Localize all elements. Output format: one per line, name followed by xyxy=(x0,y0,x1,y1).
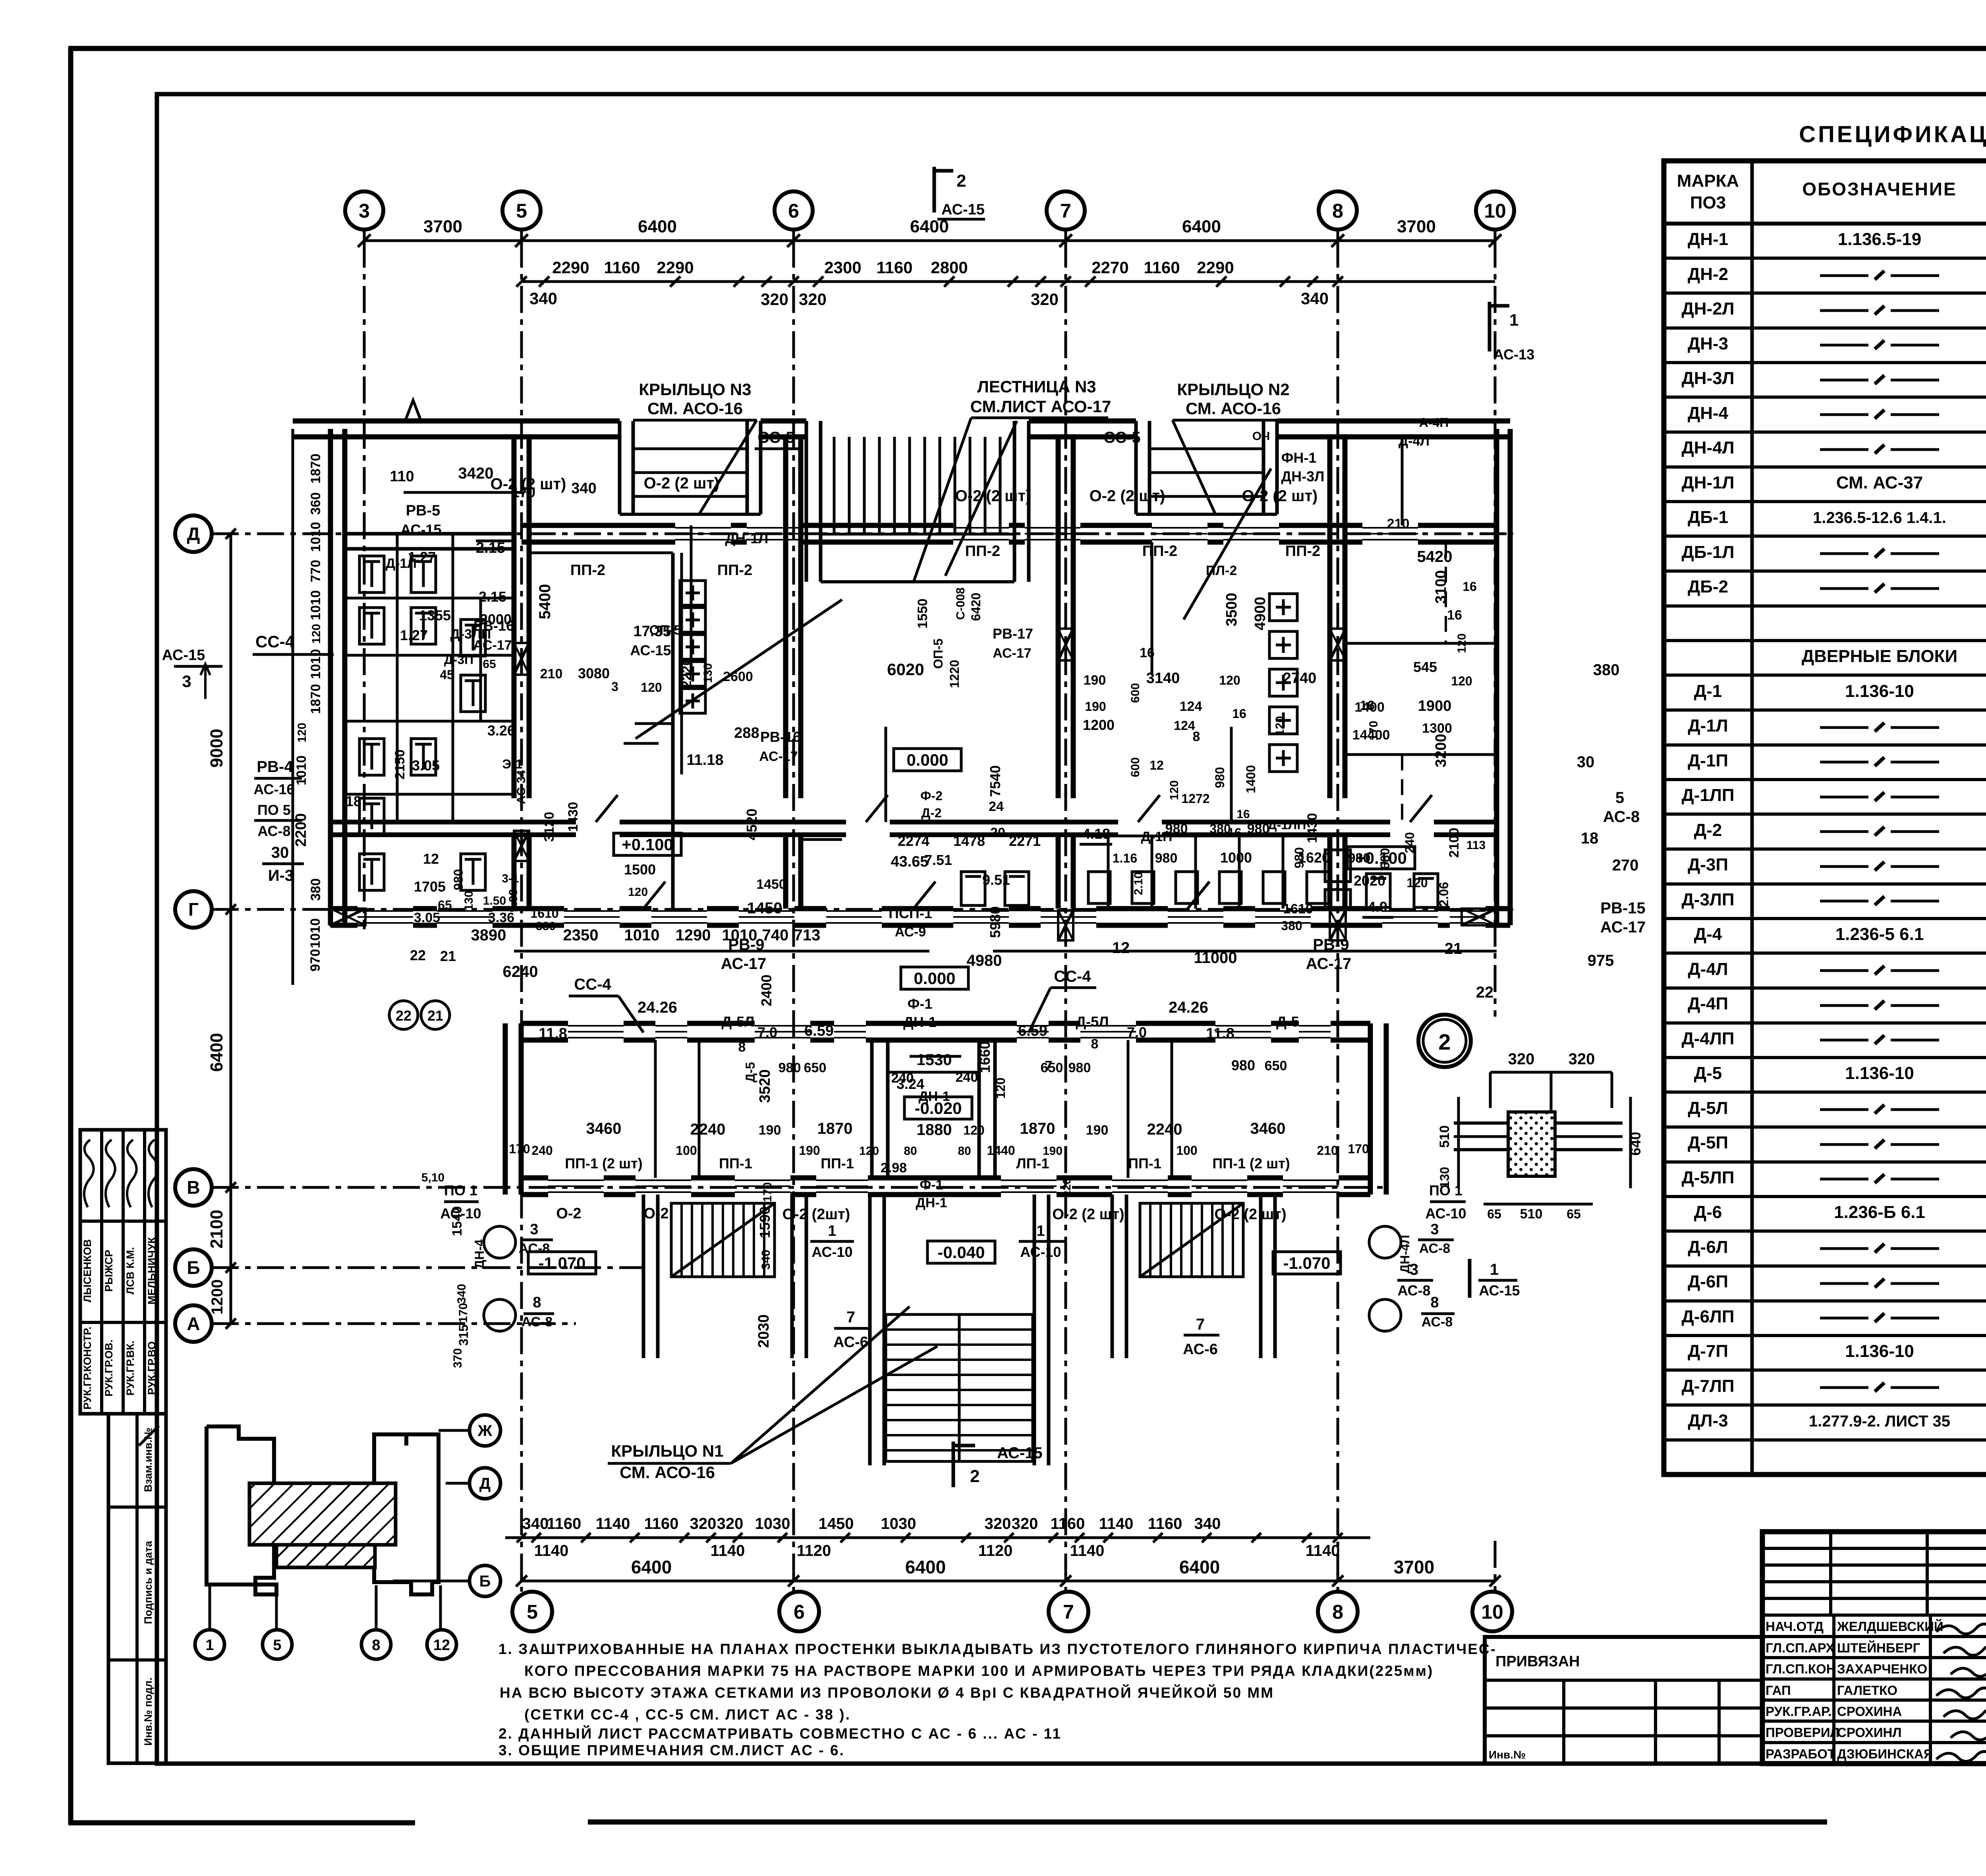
svg-text:4980: 4980 xyxy=(967,952,1002,969)
svg-text:3140: 3140 xyxy=(1146,670,1180,687)
svg-text:1: 1 xyxy=(1036,1223,1045,1239)
svg-text:1010: 1010 xyxy=(308,590,323,620)
svg-text:120: 120 xyxy=(296,723,309,743)
svg-text:АС-17: АС-17 xyxy=(473,638,512,653)
svg-text:1160: 1160 xyxy=(644,1515,679,1532)
svg-text:1.136-10: 1.136-10 xyxy=(1845,1063,1914,1083)
porch 3 xyxy=(618,421,622,514)
svg-text:0.000: 0.000 xyxy=(914,969,955,988)
svg-text:О-2 (2 шт): О-2 (2 шт) xyxy=(955,487,1031,505)
detail 2 xyxy=(1418,1015,1471,1067)
svg-text:320: 320 xyxy=(1508,1050,1535,1068)
svg-text:Д-5: Д-5 xyxy=(1276,1013,1299,1030)
svg-text:16: 16 xyxy=(1462,579,1477,594)
svg-text:МАРКА: МАРКА xyxy=(1677,171,1739,191)
svg-text:3: 3 xyxy=(182,672,191,691)
svg-text:И-3: И-3 xyxy=(268,867,294,884)
svg-text:4520: 4520 xyxy=(744,809,760,840)
svg-text:АС-8: АС-8 xyxy=(1397,1282,1430,1299)
svg-text:190: 190 xyxy=(1084,673,1106,688)
svg-text:1160: 1160 xyxy=(547,1515,582,1532)
svg-text:1140: 1140 xyxy=(1306,1542,1340,1559)
svg-text:8: 8 xyxy=(738,1040,746,1055)
svg-text:8: 8 xyxy=(533,1294,541,1311)
svg-text:120: 120 xyxy=(641,680,662,695)
svg-text:В: В xyxy=(187,1177,200,1198)
svg-text:980: 980 xyxy=(1247,821,1270,836)
svg-text:980: 980 xyxy=(779,1060,801,1075)
svg-text:ДН-1: ДН-1 xyxy=(903,1014,937,1030)
svg-text:1010: 1010 xyxy=(294,755,309,786)
svg-text:1290: 1290 xyxy=(676,926,711,944)
svg-text:510: 510 xyxy=(1437,1125,1452,1148)
svg-text:АС-8: АС-8 xyxy=(1419,1241,1451,1256)
svg-text:3460: 3460 xyxy=(586,1120,622,1137)
svg-text:170: 170 xyxy=(1367,721,1380,741)
svg-text:АС-15: АС-15 xyxy=(630,642,671,658)
svg-text:370: 370 xyxy=(451,1348,464,1368)
svg-text:6420: 6420 xyxy=(969,593,983,621)
svg-text:ЗАХАРЧЕНКО: ЗАХАРЧЕНКО xyxy=(1837,1662,1927,1676)
svg-text:1.50: 1.50 xyxy=(483,894,506,907)
svg-text:1160: 1160 xyxy=(1051,1515,1085,1532)
svg-text:4900: 4900 xyxy=(1252,597,1269,631)
svg-text:7540: 7540 xyxy=(987,765,1003,797)
bottom dimension strings xyxy=(505,1536,1370,1539)
svg-text:ЛЫСЕНКОВ: ЛЫСЕНКОВ xyxy=(81,1239,93,1302)
svg-text:СС-5: СС-5 xyxy=(757,429,794,446)
svg-text:120: 120 xyxy=(1168,780,1181,800)
svg-text:1120: 1120 xyxy=(797,1542,831,1559)
svg-text:1550: 1550 xyxy=(915,598,930,629)
svg-text:ЛП-1: ЛП-1 xyxy=(1016,1155,1049,1172)
svg-text:240: 240 xyxy=(956,1070,978,1085)
svg-text:5: 5 xyxy=(273,1637,281,1654)
svg-text:РАЗРАБОТ: РАЗРАБОТ xyxy=(1766,1747,1835,1761)
svg-text:320: 320 xyxy=(799,290,827,309)
svg-text:980: 980 xyxy=(1348,851,1371,866)
svg-text:2. ДАННЫЙ ЛИСТ РАССМАТРИВАТЬ: 2. ДАННЫЙ ЛИСТ РАССМАТРИВАТЬ СОВМЕСТНО С… xyxy=(498,1725,1062,1742)
svg-text:2400: 2400 xyxy=(758,975,775,1006)
svg-text:АС-17: АС-17 xyxy=(993,646,1031,661)
svg-text:ПП-2: ПП-2 xyxy=(965,543,1000,560)
svg-text:ПП-1: ПП-1 xyxy=(821,1155,854,1172)
svg-text:6: 6 xyxy=(788,200,799,222)
svg-text:2600: 2600 xyxy=(723,669,753,684)
svg-text:Д-7ЛП: Д-7ЛП xyxy=(1682,1376,1735,1396)
axis G wall (south) xyxy=(330,906,357,911)
svg-text:2300: 2300 xyxy=(824,258,861,277)
svg-text:65: 65 xyxy=(1567,1207,1581,1221)
svg-text:1140: 1140 xyxy=(1070,1542,1105,1559)
svg-text:ПО 5: ПО 5 xyxy=(257,802,291,818)
svg-text:3500: 3500 xyxy=(1223,593,1240,627)
svg-text:Д: Д xyxy=(479,1475,491,1492)
svg-text:240: 240 xyxy=(531,1143,553,1158)
svg-text:2100: 2100 xyxy=(1447,828,1462,858)
svg-text:АС-34: АС-34 xyxy=(515,770,528,804)
svg-text:7: 7 xyxy=(1063,1601,1074,1623)
svg-text:1440: 1440 xyxy=(987,1143,1015,1158)
svg-text:12: 12 xyxy=(433,1637,450,1654)
svg-text:СС-4: СС-4 xyxy=(574,976,611,993)
svg-text:А: А xyxy=(187,1313,200,1334)
svg-text:3. ОБЩИЕ ПРИМЕЧАНИЯ СМ.ЛИСТ: 3. ОБЩИЕ ПРИМЕЧАНИЯ СМ.ЛИСТ АС - 6. xyxy=(498,1742,845,1758)
svg-text:АС-6: АС-6 xyxy=(1183,1341,1218,1358)
svg-text:Ж: Ж xyxy=(477,1422,493,1440)
svg-text:АС-16: АС-16 xyxy=(253,781,294,797)
svg-text:2.06: 2.06 xyxy=(1437,882,1451,907)
svg-text:КРЫЛЬЦО N2: КРЫЛЬЦО N2 xyxy=(1177,380,1289,399)
svg-text:120: 120 xyxy=(1273,716,1287,736)
svg-text:5,10: 5,10 xyxy=(421,1171,444,1184)
svg-text:Д-1П: Д-1П xyxy=(1141,829,1173,844)
svg-text:1450: 1450 xyxy=(819,1515,854,1532)
svg-text:130: 130 xyxy=(462,891,475,911)
svg-text:22: 22 xyxy=(1476,984,1494,1001)
svg-text:РУК.ГР.ВК.: РУК.ГР.ВК. xyxy=(124,1341,136,1396)
svg-text:6400: 6400 xyxy=(207,1033,226,1072)
svg-text:6.59: 6.59 xyxy=(804,1023,834,1039)
svg-text:1530: 1530 xyxy=(917,1051,952,1069)
left margin stamp: inv boxes xyxy=(108,1414,166,1763)
svg-text:8: 8 xyxy=(1332,200,1343,222)
sheet outer border xyxy=(68,46,1986,51)
svg-text:ДН-1Л: ДН-1Л xyxy=(725,530,769,546)
svg-text:ГЛ.СП.КОН: ГЛ.СП.КОН xyxy=(1766,1662,1836,1676)
wc stalls 7-8 xyxy=(1269,594,1297,621)
svg-text:980: 980 xyxy=(1231,1057,1255,1073)
svg-text:ПСП-1: ПСП-1 xyxy=(889,905,932,921)
svg-text:СМ. АСО-16: СМ. АСО-16 xyxy=(1186,399,1281,418)
corridor wall xyxy=(330,820,576,824)
svg-text:О-2: О-2 xyxy=(556,1205,581,1222)
svg-text:1: 1 xyxy=(1509,311,1518,329)
svg-text:ДН-1: ДН-1 xyxy=(1688,230,1728,249)
svg-text:340: 340 xyxy=(759,1250,773,1270)
svg-text:1010: 1010 xyxy=(308,522,323,552)
svg-text:РВ-5: РВ-5 xyxy=(406,502,440,519)
svg-text:1. ЗАШТРИХОВАННЫЕ НА ПЛАНАХ: 1. ЗАШТРИХОВАННЫЕ НА ПЛАНАХ ПРОСТЕНКИ ВЫ… xyxy=(498,1641,1497,1657)
svg-text:9.51: 9.51 xyxy=(982,872,1010,888)
svg-text:ПП-1: ПП-1 xyxy=(1128,1155,1161,1172)
svg-text:1450: 1450 xyxy=(747,899,782,917)
svg-text:АС-8: АС-8 xyxy=(1603,808,1640,826)
svg-text:5: 5 xyxy=(527,1601,538,1623)
svg-text:2270: 2270 xyxy=(1092,258,1128,277)
svg-text:120: 120 xyxy=(1219,673,1240,687)
svg-text:ДН-4Л: ДН-4Л xyxy=(1681,438,1734,457)
svg-text:Д-5: Д-5 xyxy=(743,1062,757,1082)
svg-text:Д: Д xyxy=(187,523,200,544)
title block xyxy=(1762,1532,1986,1764)
svg-text:315: 315 xyxy=(456,1324,471,1345)
svg-text:3420: 3420 xyxy=(458,465,494,482)
svg-text:320: 320 xyxy=(985,1515,1011,1532)
svg-text:1.136-10: 1.136-10 xyxy=(1845,681,1914,701)
svg-text:1.236-Б 6.1: 1.236-Б 6.1 xyxy=(1834,1202,1925,1222)
svg-text:ДВЕРНЫЕ БЛОКИ: ДВЕРНЫЕ БЛОКИ xyxy=(1802,647,1957,666)
svg-text:740: 740 xyxy=(762,926,789,944)
svg-text:3520: 3520 xyxy=(757,1069,773,1103)
wc stalls 5-6 xyxy=(671,553,675,909)
svg-text:Д-5Л: Д-5Л xyxy=(722,1013,755,1030)
svg-text:2740: 2740 xyxy=(1283,670,1317,687)
svg-text:ДН-4: ДН-4 xyxy=(1688,403,1729,423)
svg-text:ЛЕСТНИЦА N3: ЛЕСТНИЦА N3 xyxy=(977,377,1096,396)
svg-text:11.8: 11.8 xyxy=(539,1025,567,1042)
svg-text:2.98: 2.98 xyxy=(881,1160,907,1175)
svg-text:АС-15: АС-15 xyxy=(941,201,985,218)
svg-text:1.27: 1.27 xyxy=(408,549,436,565)
svg-text:3460: 3460 xyxy=(1250,1120,1286,1137)
svg-text:ПО 1: ПО 1 xyxy=(444,1182,477,1199)
svg-text:ДН-3Л: ДН-3Л xyxy=(1281,468,1325,484)
svg-text:СС-4: СС-4 xyxy=(255,632,295,651)
svg-text:113: 113 xyxy=(1466,839,1486,852)
svg-text:1400: 1400 xyxy=(1354,700,1385,715)
svg-text:АС-15: АС-15 xyxy=(400,521,441,538)
svg-text:6400: 6400 xyxy=(638,217,677,236)
svg-text:2: 2 xyxy=(970,1467,979,1486)
svg-text:1880: 1880 xyxy=(917,1121,952,1139)
svg-text:Д-6П: Д-6П xyxy=(1688,1272,1728,1291)
svg-text:СМ. АСО-16: СМ. АСО-16 xyxy=(620,1463,715,1482)
svg-text:ДН-1Л: ДН-1Л xyxy=(1681,473,1734,492)
svg-text:16: 16 xyxy=(1232,706,1246,721)
svg-text:Д-1: Д-1 xyxy=(1694,681,1722,701)
svg-text:3080: 3080 xyxy=(578,665,610,681)
svg-text:3700: 3700 xyxy=(423,217,462,236)
svg-text:210: 210 xyxy=(1387,516,1410,531)
svg-text:СПЕЦИФИКАЦИЯ ДВЕРЕЙ: СПЕЦИФИКАЦИЯ ДВЕРЕЙ xyxy=(1799,122,1986,147)
svg-text:АС-8: АС-8 xyxy=(1422,1314,1453,1330)
svg-text:120: 120 xyxy=(963,1123,984,1137)
svg-text:120: 120 xyxy=(859,1145,879,1158)
svg-text:О-2 (2шт): О-2 (2шт) xyxy=(782,1206,850,1223)
svg-text:Д-5Л: Д-5Л xyxy=(1076,1013,1109,1030)
svg-text:О-2 (2 шт): О-2 (2 шт) xyxy=(1214,1206,1286,1223)
svg-text:4.9: 4.9 xyxy=(1368,899,1387,915)
svg-text:2: 2 xyxy=(956,171,966,191)
svg-text:0.000: 0.000 xyxy=(906,751,948,769)
svg-text:24.26: 24.26 xyxy=(638,999,677,1016)
svg-text:30: 30 xyxy=(1577,753,1595,771)
svg-text:Д-3П: Д-3П xyxy=(1688,855,1728,874)
svg-text:1500: 1500 xyxy=(624,861,656,878)
svg-text:1010: 1010 xyxy=(308,918,323,948)
svg-text:-0.040: -0.040 xyxy=(937,1243,985,1262)
svg-text:45: 45 xyxy=(440,668,454,682)
svg-text:ОБОЗНАЧЕНИЕ: ОБОЗНАЧЕНИЕ xyxy=(1802,179,1957,199)
svg-text:АС-6: АС-6 xyxy=(833,1334,868,1351)
svg-text:7: 7 xyxy=(1060,200,1071,222)
svg-text:320: 320 xyxy=(1569,1050,1595,1068)
svg-text:+0.100: +0.100 xyxy=(622,835,673,854)
svg-text:1870: 1870 xyxy=(817,1120,853,1137)
svg-text:120: 120 xyxy=(310,624,323,644)
svg-text:2290: 2290 xyxy=(657,258,694,277)
svg-text:1660: 1660 xyxy=(977,1041,993,1073)
svg-text:1.277.9-2. ЛИСТ 35: 1.277.9-2. ЛИСТ 35 xyxy=(1809,1413,1950,1430)
svg-text:120: 120 xyxy=(1451,674,1472,688)
svg-text:320: 320 xyxy=(1012,1515,1038,1532)
svg-text:1010: 1010 xyxy=(308,649,323,679)
svg-text:240: 240 xyxy=(1403,832,1417,853)
svg-text:СС-4: СС-4 xyxy=(1054,968,1091,985)
svg-text:120: 120 xyxy=(1061,1178,1073,1197)
svg-text:ОП-5: ОП-5 xyxy=(931,639,945,669)
svg-text:100: 100 xyxy=(1176,1143,1197,1158)
svg-text:1400: 1400 xyxy=(1244,765,1258,793)
svg-text:О-2 (2 шт): О-2 (2 шт) xyxy=(1242,487,1318,505)
svg-text:1200: 1200 xyxy=(1083,717,1115,733)
svg-text:О-2 (2 шт): О-2 (2 шт) xyxy=(1052,1206,1124,1223)
svg-text:7.0: 7.0 xyxy=(757,1024,777,1040)
svg-text:2.15: 2.15 xyxy=(479,589,506,605)
svg-text:24.26: 24.26 xyxy=(1169,999,1208,1016)
svg-text:2030: 2030 xyxy=(755,1314,772,1348)
svg-text:5400: 5400 xyxy=(536,584,554,620)
svg-text:9000: 9000 xyxy=(207,729,226,768)
upper block outer walls xyxy=(292,429,294,985)
privyazan box xyxy=(1485,1637,1762,1764)
svg-text:2150: 2150 xyxy=(392,749,408,780)
svg-text:80: 80 xyxy=(904,1145,917,1158)
svg-text:1: 1 xyxy=(205,1637,214,1654)
svg-text:(СЕТКИ СС-4 , СС-5 СМ. ЛИСТ: (СЕТКИ СС-4 , СС-5 СМ. ЛИСТ АС - 38 ). xyxy=(524,1706,851,1723)
svg-text:АС-9: АС-9 xyxy=(895,924,926,940)
svg-text:7: 7 xyxy=(1196,1316,1205,1333)
svg-text:270: 270 xyxy=(1612,857,1639,874)
svg-text:20: 20 xyxy=(990,825,1005,840)
svg-text:Д-3ЛП: Д-3ЛП xyxy=(1682,890,1735,909)
svg-text:1.16: 1.16 xyxy=(1113,851,1137,865)
svg-text:1030: 1030 xyxy=(755,1515,790,1532)
svg-text:640: 640 xyxy=(1627,1132,1644,1156)
svg-text:22: 22 xyxy=(396,1007,411,1024)
svg-text:650: 650 xyxy=(1041,1060,1063,1075)
svg-text:Д-4П: Д-4П xyxy=(1688,994,1728,1013)
svg-text:360: 360 xyxy=(308,492,323,515)
svg-text:НАЧ.ОТД: НАЧ.ОТД xyxy=(1766,1619,1824,1634)
svg-text:24: 24 xyxy=(989,799,1004,814)
svg-text:РВ-17: РВ-17 xyxy=(993,625,1033,642)
svg-text:1705: 1705 xyxy=(414,878,446,895)
svg-text:ДН-1: ДН-1 xyxy=(916,1195,947,1210)
svg-text:3: 3 xyxy=(1410,1261,1418,1278)
svg-text:ДБ-1Л: ДБ-1Л xyxy=(1682,542,1735,562)
svg-text:С-008: С-008 xyxy=(954,587,967,620)
svg-text:АС-8: АС-8 xyxy=(522,1314,553,1330)
svg-text:ДЗЮБИНСКАЯ: ДЗЮБИНСКАЯ xyxy=(1837,1747,1933,1761)
svg-text:1: 1 xyxy=(1490,1261,1499,1278)
svg-text:7: 7 xyxy=(846,1309,855,1326)
svg-text:ОП-5: ОП-5 xyxy=(649,623,681,638)
svg-text:6: 6 xyxy=(794,1601,805,1623)
svg-text:600: 600 xyxy=(1129,757,1142,777)
svg-text:3.05: 3.05 xyxy=(414,910,440,925)
svg-text:РУК.ГР.АР.: РУК.ГР.АР. xyxy=(1766,1704,1831,1719)
svg-text:АС-15: АС-15 xyxy=(997,1444,1043,1462)
svg-text:Д-5П: Д-5П xyxy=(1688,1133,1728,1152)
fixtures xyxy=(359,556,384,593)
svg-text:380: 380 xyxy=(308,878,323,901)
svg-text:3100: 3100 xyxy=(1433,570,1449,604)
svg-text:10: 10 xyxy=(1484,200,1506,222)
svg-text:124: 124 xyxy=(1180,699,1202,714)
svg-text:1.136.5-19: 1.136.5-19 xyxy=(1838,230,1921,249)
svg-text:340: 340 xyxy=(529,289,557,308)
svg-text:975: 975 xyxy=(1588,952,1614,969)
svg-text:1478: 1478 xyxy=(953,833,985,849)
svg-text:Д-6ЛП: Д-6ЛП xyxy=(1682,1307,1735,1326)
svg-text:6400: 6400 xyxy=(1179,1557,1220,1577)
svg-text:АС-15: АС-15 xyxy=(1479,1282,1520,1299)
svg-text:30: 30 xyxy=(271,844,289,861)
svg-text:3: 3 xyxy=(530,1221,538,1238)
svg-text:2020: 2020 xyxy=(1354,872,1385,889)
svg-text:980: 980 xyxy=(1292,847,1306,868)
svg-text:Д-1ЛП: Д-1ЛП xyxy=(1682,786,1735,805)
svg-text:Д-7П: Д-7П xyxy=(1688,1341,1728,1361)
svg-text:3: 3 xyxy=(359,200,370,222)
svg-text:2100: 2100 xyxy=(207,1210,226,1249)
svg-text:21: 21 xyxy=(440,948,456,964)
svg-text:380: 380 xyxy=(536,920,556,933)
svg-text:АС-17: АС-17 xyxy=(721,955,767,973)
svg-text:1: 1 xyxy=(828,1223,836,1239)
svg-text:АС-17: АС-17 xyxy=(759,749,798,764)
svg-text:8: 8 xyxy=(1091,1036,1099,1052)
svg-text:1220: 1220 xyxy=(947,660,962,688)
svg-text:1160: 1160 xyxy=(1148,1515,1182,1532)
svg-text:РУК.ГР.ВО: РУК.ГР.ВО xyxy=(146,1341,158,1395)
svg-text:170: 170 xyxy=(509,1142,530,1156)
svg-text:-1.070: -1.070 xyxy=(538,1254,585,1272)
svg-text:170: 170 xyxy=(1348,1142,1369,1156)
svg-text:1430: 1430 xyxy=(566,802,581,832)
svg-text:Д-4Л: Д-4Л xyxy=(1688,959,1728,979)
svg-text:1.27: 1.27 xyxy=(400,627,428,643)
svg-text:1590: 1590 xyxy=(757,1206,773,1238)
svg-text:1900: 1900 xyxy=(1418,698,1452,714)
svg-text:Подпись и дата: Подпись и дата xyxy=(142,1540,154,1624)
svg-text:320: 320 xyxy=(1031,290,1059,309)
svg-text:320: 320 xyxy=(690,1515,717,1532)
svg-text:650: 650 xyxy=(1265,1058,1287,1073)
svg-text:5: 5 xyxy=(1615,789,1624,807)
stair 3 treads xyxy=(805,421,808,582)
svg-text:КРЫЛЬЦО N1: КРЫЛЬЦО N1 xyxy=(611,1442,723,1460)
svg-text:ПП-2: ПП-2 xyxy=(1142,543,1177,560)
svg-text:МЕЛЬНИЧУК: МЕЛЬНИЧУК xyxy=(146,1237,158,1305)
svg-text:16: 16 xyxy=(1140,645,1155,660)
svg-text:ПП-2: ПП-2 xyxy=(1285,543,1320,560)
svg-text:1.236.5-12.6 1.4.1.: 1.236.5-12.6 1.4.1. xyxy=(1813,509,1946,527)
svg-text:100: 100 xyxy=(676,1143,697,1158)
svg-text:6240: 6240 xyxy=(503,963,538,980)
svg-text:1870: 1870 xyxy=(1020,1120,1055,1137)
svg-text:3890: 3890 xyxy=(471,926,506,944)
svg-text:3.26: 3.26 xyxy=(487,722,515,739)
svg-text:РУК.ГР.ОВ.: РУК.ГР.ОВ. xyxy=(103,1339,115,1396)
svg-text:Д-5: Д-5 xyxy=(1694,1063,1722,1083)
svg-text:ПП-1: ПП-1 xyxy=(719,1155,752,1172)
axis D wall xyxy=(522,523,675,528)
svg-text:6020: 6020 xyxy=(887,660,924,679)
svg-text:12: 12 xyxy=(423,851,439,867)
